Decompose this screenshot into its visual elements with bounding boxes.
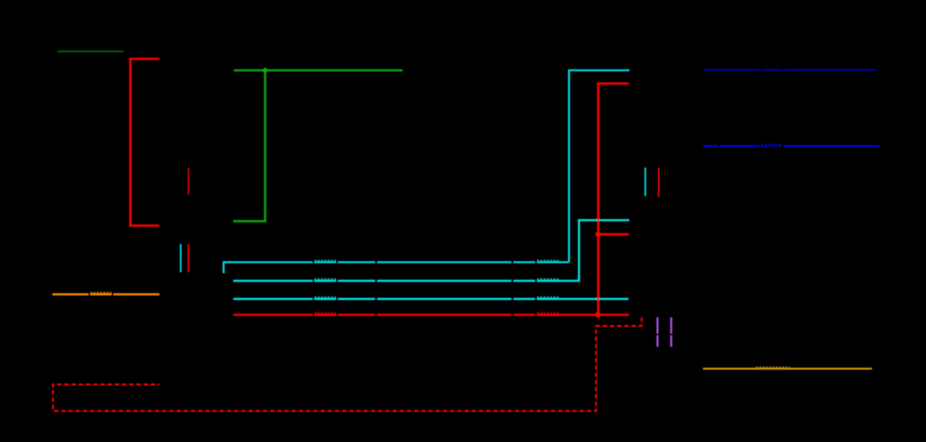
wire: blue mid-right bbox=[703, 145, 880, 147]
label text on orange left bbox=[90, 292, 111, 294]
wire: red main horizontal bbox=[233, 314, 629, 316]
pin mark: red pin right component bbox=[658, 168, 660, 197]
wire: red bracket (battery feed, left) bbox=[130, 59, 159, 226]
wire: dark green stub top-left bbox=[58, 50, 124, 52]
pin mark: cyan pin lower-left component bbox=[180, 244, 182, 272]
wire: red dashed return path bbox=[53, 317, 642, 411]
wire: dark blue top-right bbox=[703, 69, 876, 71]
label text on cyan 3 bbox=[315, 296, 559, 298]
junction: red node upper bbox=[595, 232, 601, 238]
pin mark: cyan pin right component bbox=[644, 168, 646, 197]
pin mark: magenta pin 1 bbox=[657, 317, 659, 346]
wire: cyan 1 (top loop) bbox=[224, 70, 630, 273]
wire: orange left bbox=[52, 293, 159, 295]
label text on cyan 2 bbox=[315, 278, 559, 280]
pin mark: magenta pin 2 bbox=[670, 317, 672, 346]
label text on blue wire bbox=[761, 145, 783, 147]
wire: red vertical trunk with top corner bbox=[598, 84, 629, 315]
label text on cyan 1 bbox=[315, 260, 559, 262]
wire: amber bottom-right bbox=[703, 368, 872, 370]
wire: green signal with branch bbox=[233, 70, 402, 221]
pin mark: red pin upper-left component bbox=[187, 168, 189, 194]
wire: cyan 2 bbox=[233, 220, 629, 281]
wire: cyan 3 bbox=[233, 298, 628, 300]
wire: red branch to right bbox=[598, 233, 629, 235]
label text on amber wire bbox=[756, 366, 790, 368]
junction: green node bbox=[262, 67, 268, 73]
pin mark: red pin lower-left component bbox=[187, 244, 189, 272]
junction: red node lower bbox=[595, 312, 601, 318]
label text on red main bbox=[315, 312, 559, 314]
